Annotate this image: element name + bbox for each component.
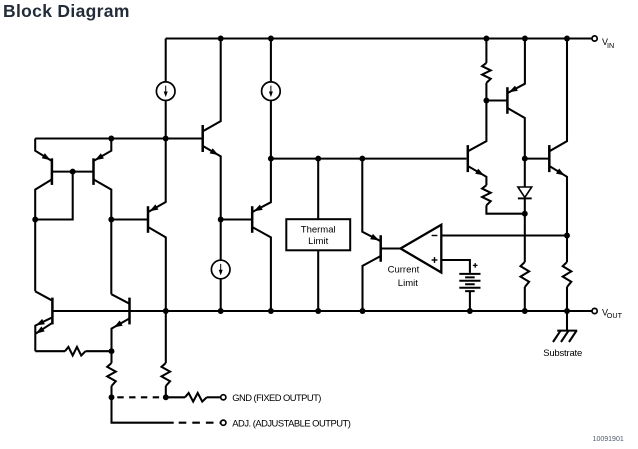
transistor Q6 bar [128, 298, 131, 325]
svg-text:10091901: 10091901 [593, 436, 624, 443]
wire R1 to Q10 base node [485, 83, 487, 101]
wire Q11 emitter [549, 166, 567, 236]
wire left bias rail [35, 137, 203, 139]
node R5 / Q6 emitter / R6 [109, 348, 115, 354]
resistor R1 [482, 63, 491, 83]
wire I2 from top rail [270, 39, 272, 82]
resistor R7 [162, 363, 171, 386]
label substrate [543, 348, 582, 359]
wire Q3 emitter [203, 146, 221, 220]
node Q10 collector / diode / Q11 base [522, 156, 528, 162]
wire Q4 collector [148, 227, 166, 311]
transistor Q4 bar [147, 206, 150, 233]
wire Q1 collector [35, 179, 52, 291]
battery reference V1 [459, 263, 480, 311]
node top rail / Q10 emitter [522, 36, 528, 42]
arrow Q9 emitter [475, 169, 484, 176]
wire Q7 base [221, 218, 253, 220]
wire thermal limit bottom [317, 250, 319, 311]
wire Q8 base [381, 247, 401, 249]
wire Q9 emitter [468, 166, 487, 185]
transistor Q2 bar [92, 158, 95, 185]
wire Q7 collector [252, 227, 271, 311]
transistor Q3 bar [201, 125, 204, 152]
node output rail / I3 [218, 308, 224, 314]
arrow Q3 emitter [210, 148, 219, 155]
svg-text:Current: Current [388, 265, 420, 276]
arrow Q11 emitter [556, 169, 565, 176]
wire R7 from output rail [165, 311, 167, 363]
svg-text:Limit: Limit [398, 278, 418, 289]
wire I1 from top rail [165, 39, 167, 82]
wire Q9 collector [468, 101, 487, 152]
wire Q10 base [486, 99, 507, 101]
wire Q11 collector [549, 39, 567, 152]
diode D1 [518, 187, 532, 198]
transistor Q8 bar [379, 235, 382, 262]
node output rail / R4 [564, 308, 570, 314]
wire R3 to output rail [524, 287, 526, 311]
wire R6 from node [110, 351, 112, 363]
current source I1 [156, 82, 175, 101]
wire top supply rail [166, 37, 592, 39]
node Q2 collector / Q4 base [108, 217, 114, 223]
transistor Q7 bar [251, 206, 254, 233]
node Q3 emitter / Q7 base [218, 217, 224, 223]
terminal ADJ [221, 420, 226, 425]
node R6 / ADJ [109, 394, 115, 400]
wire Q1 base [52, 171, 94, 173]
wire output rail [52, 310, 591, 312]
wire I2 to mid rail [270, 101, 272, 159]
op-amp current limit [388, 225, 442, 289]
node R2 / diode [522, 211, 528, 217]
current source I2 [262, 82, 281, 101]
wire Q6 emitter [112, 318, 130, 351]
current source I3 [211, 260, 230, 279]
transistor Q1 bar [51, 158, 54, 185]
wire ADJ solid [112, 397, 174, 422]
wire R5 from Q5 emitters [35, 350, 65, 352]
arrow Q4 emitter [149, 204, 158, 211]
wire R1 from top rail [485, 39, 487, 63]
svg-text:GND (FIXED OUTPUT): GND (FIXED OUTPUT) [232, 392, 321, 403]
wire I1 to left rail [165, 101, 167, 139]
node output rail / R3 [522, 308, 528, 314]
node output rail / Q4 collector [163, 308, 169, 314]
wire R3 from node [524, 214, 526, 262]
wire R7 to GND node [165, 386, 167, 397]
wire ADJ dashed [179, 422, 221, 424]
svg-text:IN: IN [607, 41, 614, 50]
terminal VOUT [592, 308, 623, 321]
svg-text:OUT: OUT [607, 311, 623, 320]
label figure number [593, 436, 624, 443]
node Q11 emitter / sense [564, 233, 570, 239]
ground substrate symbol [553, 331, 577, 342]
transistor Q10 bar [506, 87, 509, 114]
terminal GND [221, 395, 226, 400]
wire D1 to node [524, 198, 526, 213]
node left rail / Q2 emitter [108, 136, 114, 142]
resistor R8 [185, 393, 207, 402]
wire Q4 base [111, 218, 148, 220]
transistor Q9 bar [467, 145, 470, 172]
transistor Q5 bar [51, 298, 54, 325]
block thermal limit [286, 219, 350, 250]
wire Q5 collector [35, 291, 52, 300]
transistor Q11 bar [548, 145, 551, 172]
wire I3 from Q3 emitter node [220, 220, 222, 261]
node R1 / Q9 collector / Q10 base [483, 98, 489, 104]
arrow Q5 emitter 1 [36, 319, 45, 326]
wire Q3 collector [203, 39, 221, 132]
wire Q8 emitter [362, 159, 380, 242]
wire Q5 emitter 1 [35, 317, 52, 351]
wire dashed R6-R7 [117, 396, 164, 398]
svg-text:ADJ. (ADJUSTABLE OUTPUT): ADJ. (ADJUSTABLE OUTPUT) [232, 417, 350, 428]
wire I3 to output rail [220, 279, 222, 311]
node top rail / I2 [268, 36, 274, 42]
wire R4 from node [566, 236, 568, 263]
wire substrate [566, 311, 568, 331]
svg-text:Thermal: Thermal [301, 224, 336, 235]
resistor R3 [521, 262, 530, 287]
node mid rail / thermal limit [315, 156, 321, 162]
svg-text:Limit: Limit [308, 236, 328, 247]
terminal VIN [592, 36, 614, 50]
wire Q10 emitter [507, 39, 525, 94]
node mid rail / I2 [268, 156, 274, 162]
title Block Diagram [3, 1, 130, 22]
node Q1/Q2 base [70, 169, 76, 175]
arrow Q7 emitter [254, 205, 263, 212]
wire Q2 emitter from rail [94, 139, 112, 162]
wire R2 to node [486, 205, 524, 213]
wire R8 lead [166, 396, 185, 398]
node top rail / Q3 collector [218, 36, 224, 42]
wire Q7 emitter [252, 159, 271, 213]
wire Q1 emitter from rail [35, 139, 52, 162]
arrow Q8 emitter [370, 234, 379, 241]
node output rail / Q7 collector [268, 308, 274, 314]
arrow Q2 emitter [95, 153, 104, 160]
node left rail / I1 [163, 136, 169, 142]
label ADJ adjustable output [232, 417, 350, 428]
wire amp non-inverting input [441, 260, 470, 273]
wire Q2 collector [94, 179, 112, 294]
node Q1 collector / base tie [32, 217, 38, 223]
node top rail / R1 [483, 36, 489, 42]
wire Q11 base [525, 158, 550, 160]
wire base tie L [35, 172, 72, 220]
resistor R2 (Q9 emitter) [482, 185, 491, 205]
resistor R5 [65, 347, 86, 356]
arrow Q10 emitter [509, 86, 518, 93]
svg-text:Substrate: Substrate [543, 348, 582, 359]
wire R5 to node [86, 350, 112, 352]
resistor R6 [107, 363, 116, 386]
node output rail / thermal limit [315, 308, 321, 314]
wire mid rail [271, 158, 467, 160]
wire Q4 emitter [148, 139, 166, 213]
node mid rail / Q8 emitter [359, 156, 365, 162]
node output rail / battery [467, 308, 473, 314]
wire D1 from node [524, 159, 526, 187]
wire R4 to output rail [566, 287, 568, 311]
resistor R4 [563, 262, 572, 287]
label GND fixed output [232, 392, 321, 403]
wire Q6 collector [111, 294, 129, 304]
wire R8 to GND terminal [207, 396, 220, 398]
arrow Q6 emitter [114, 321, 123, 328]
wire Q10 collector [507, 108, 524, 159]
wire Q5 emitter 2 [35, 323, 52, 334]
node R7 / GND [163, 394, 169, 400]
wire R6 to GND node [110, 386, 112, 397]
wire amp inverting input [441, 234, 567, 236]
wire thermal limit top [317, 159, 319, 220]
wire Q8 collector [363, 256, 381, 311]
arrow Q1 emitter [42, 153, 51, 160]
node output rail / Q8 collector [360, 308, 366, 314]
node top rail / Q11 collector [564, 36, 570, 42]
arrow Q5 emitter 2 [36, 326, 45, 333]
